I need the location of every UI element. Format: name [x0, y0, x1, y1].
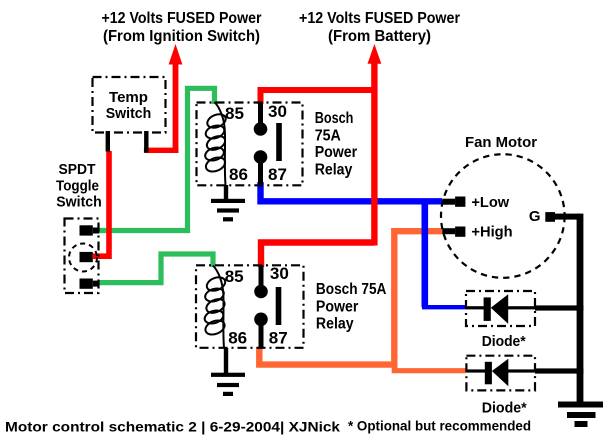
ground main [558, 402, 603, 428]
relay U2 armature bar [276, 287, 282, 325]
wire blue relay1 87 to fan +Low [261, 182, 443, 201]
svg-text:Bosch: Bosch [315, 110, 354, 127]
relay U1 pin87 contact [254, 150, 268, 184]
svg-text:30: 30 [268, 102, 287, 121]
svg-text:Toggle: Toggle [56, 178, 99, 195]
SPDT terminal top [80, 225, 100, 235]
svg-text:Power: Power [315, 144, 358, 161]
relay U1 box [197, 103, 303, 186]
SPDT terminal bottom [80, 279, 100, 289]
wire green2 SPDT to relay2 coil [98, 254, 213, 283]
relay U1 coil [203, 102, 227, 185]
relay U1 label [315, 110, 358, 178]
SPDT dashed circle [69, 244, 97, 272]
wire red battery arrow [368, 44, 382, 246]
svg-text:+Low: +Low [471, 194, 509, 211]
temp switch left terminal [106, 131, 110, 152]
svg-text:87: 87 [269, 329, 288, 348]
svg-text:Motor control schematic 2 | 6-: Motor control schematic 2 | 6-29-2004| X… [5, 419, 340, 435]
svg-text:Relay: Relay [315, 162, 353, 179]
svg-text:Power: Power [316, 299, 359, 316]
svg-text:Bosch 75A: Bosch 75A [316, 281, 387, 298]
svg-text:87: 87 [268, 165, 287, 184]
svg-text:G: G [529, 208, 541, 225]
svg-text:30: 30 [270, 264, 289, 283]
svg-text:Temp: Temp [109, 89, 148, 106]
relay U2 pin87 contact [254, 313, 268, 348]
wire red ignition to SPDT [93, 151, 109, 256]
svg-text:* Optional but recommended: * Optional but recommended [348, 418, 531, 434]
svg-text:86: 86 [228, 329, 247, 348]
svg-text:Diode*: Diode* [482, 333, 526, 350]
svg-text:+12 Volts FUSED Power: +12 Volts FUSED Power [299, 10, 460, 27]
svg-text:+12 Volts FUSED Power: +12 Volts FUSED Power [102, 10, 262, 27]
SPDT toggle switch label [56, 161, 102, 211]
svg-text:+High: +High [471, 223, 512, 240]
svg-text:Diode*: Diode* [482, 399, 527, 416]
fan terminal G [529, 208, 580, 225]
temp switch box [93, 77, 166, 133]
SPDT toggle switch box [65, 219, 99, 294]
svg-text:Fan Motor: Fan Motor [465, 134, 537, 151]
fan terminal +High [442, 223, 512, 240]
relay U1 armature bar [276, 123, 282, 161]
svg-text:Switch: Switch [56, 194, 102, 211]
wire blue branch to diode1 [421, 201, 428, 307]
relay U2 label [316, 281, 387, 333]
diode D1 symbol [466, 294, 584, 324]
SPDT terminal middle [80, 252, 93, 262]
relay U2 pin labels [225, 264, 289, 348]
diode D2 symbol [466, 359, 583, 387]
relay U2 box [196, 265, 304, 348]
svg-text:SPDT: SPDT [59, 161, 96, 178]
temp switch right terminal [144, 131, 148, 153]
svg-text:(From Battery): (From Battery) [328, 28, 431, 45]
svg-text:Switch: Switch [106, 105, 152, 122]
wire black ground bus [577, 214, 584, 402]
svg-text:Relay: Relay [316, 316, 354, 333]
svg-text:85: 85 [225, 104, 244, 123]
svg-text:85: 85 [225, 267, 244, 286]
diode D1 box [466, 291, 535, 326]
svg-text:75A: 75A [315, 128, 341, 145]
ground relay U2 [211, 348, 245, 396]
svg-text:86: 86 [229, 165, 248, 184]
label +12V battery [299, 10, 460, 45]
wire green1 SPDT to relay1 coil [98, 88, 215, 230]
svg-text:(From Ignition Switch): (From Ignition Switch) [103, 28, 260, 45]
relay U2 pin30 contact [254, 265, 268, 298]
label +12V ignition [102, 10, 262, 45]
relay U1 pin30 contact [254, 103, 268, 136]
wire red ignition arrow [144, 44, 183, 153]
wire orange relay2 87 to fan +High [259, 231, 442, 364]
wire orange branch to diode2 [394, 365, 466, 371]
relay U1 pin labels [225, 102, 287, 184]
wire red battery to relay1 pin30 [261, 90, 375, 104]
fan motor circle [441, 134, 565, 278]
diode D2 box [466, 356, 535, 391]
relay U2 coil [203, 266, 227, 349]
fan terminal +Low [442, 194, 509, 211]
ground relay U1 [211, 185, 245, 221]
wire red battery to relay2 pin30 [261, 243, 374, 268]
